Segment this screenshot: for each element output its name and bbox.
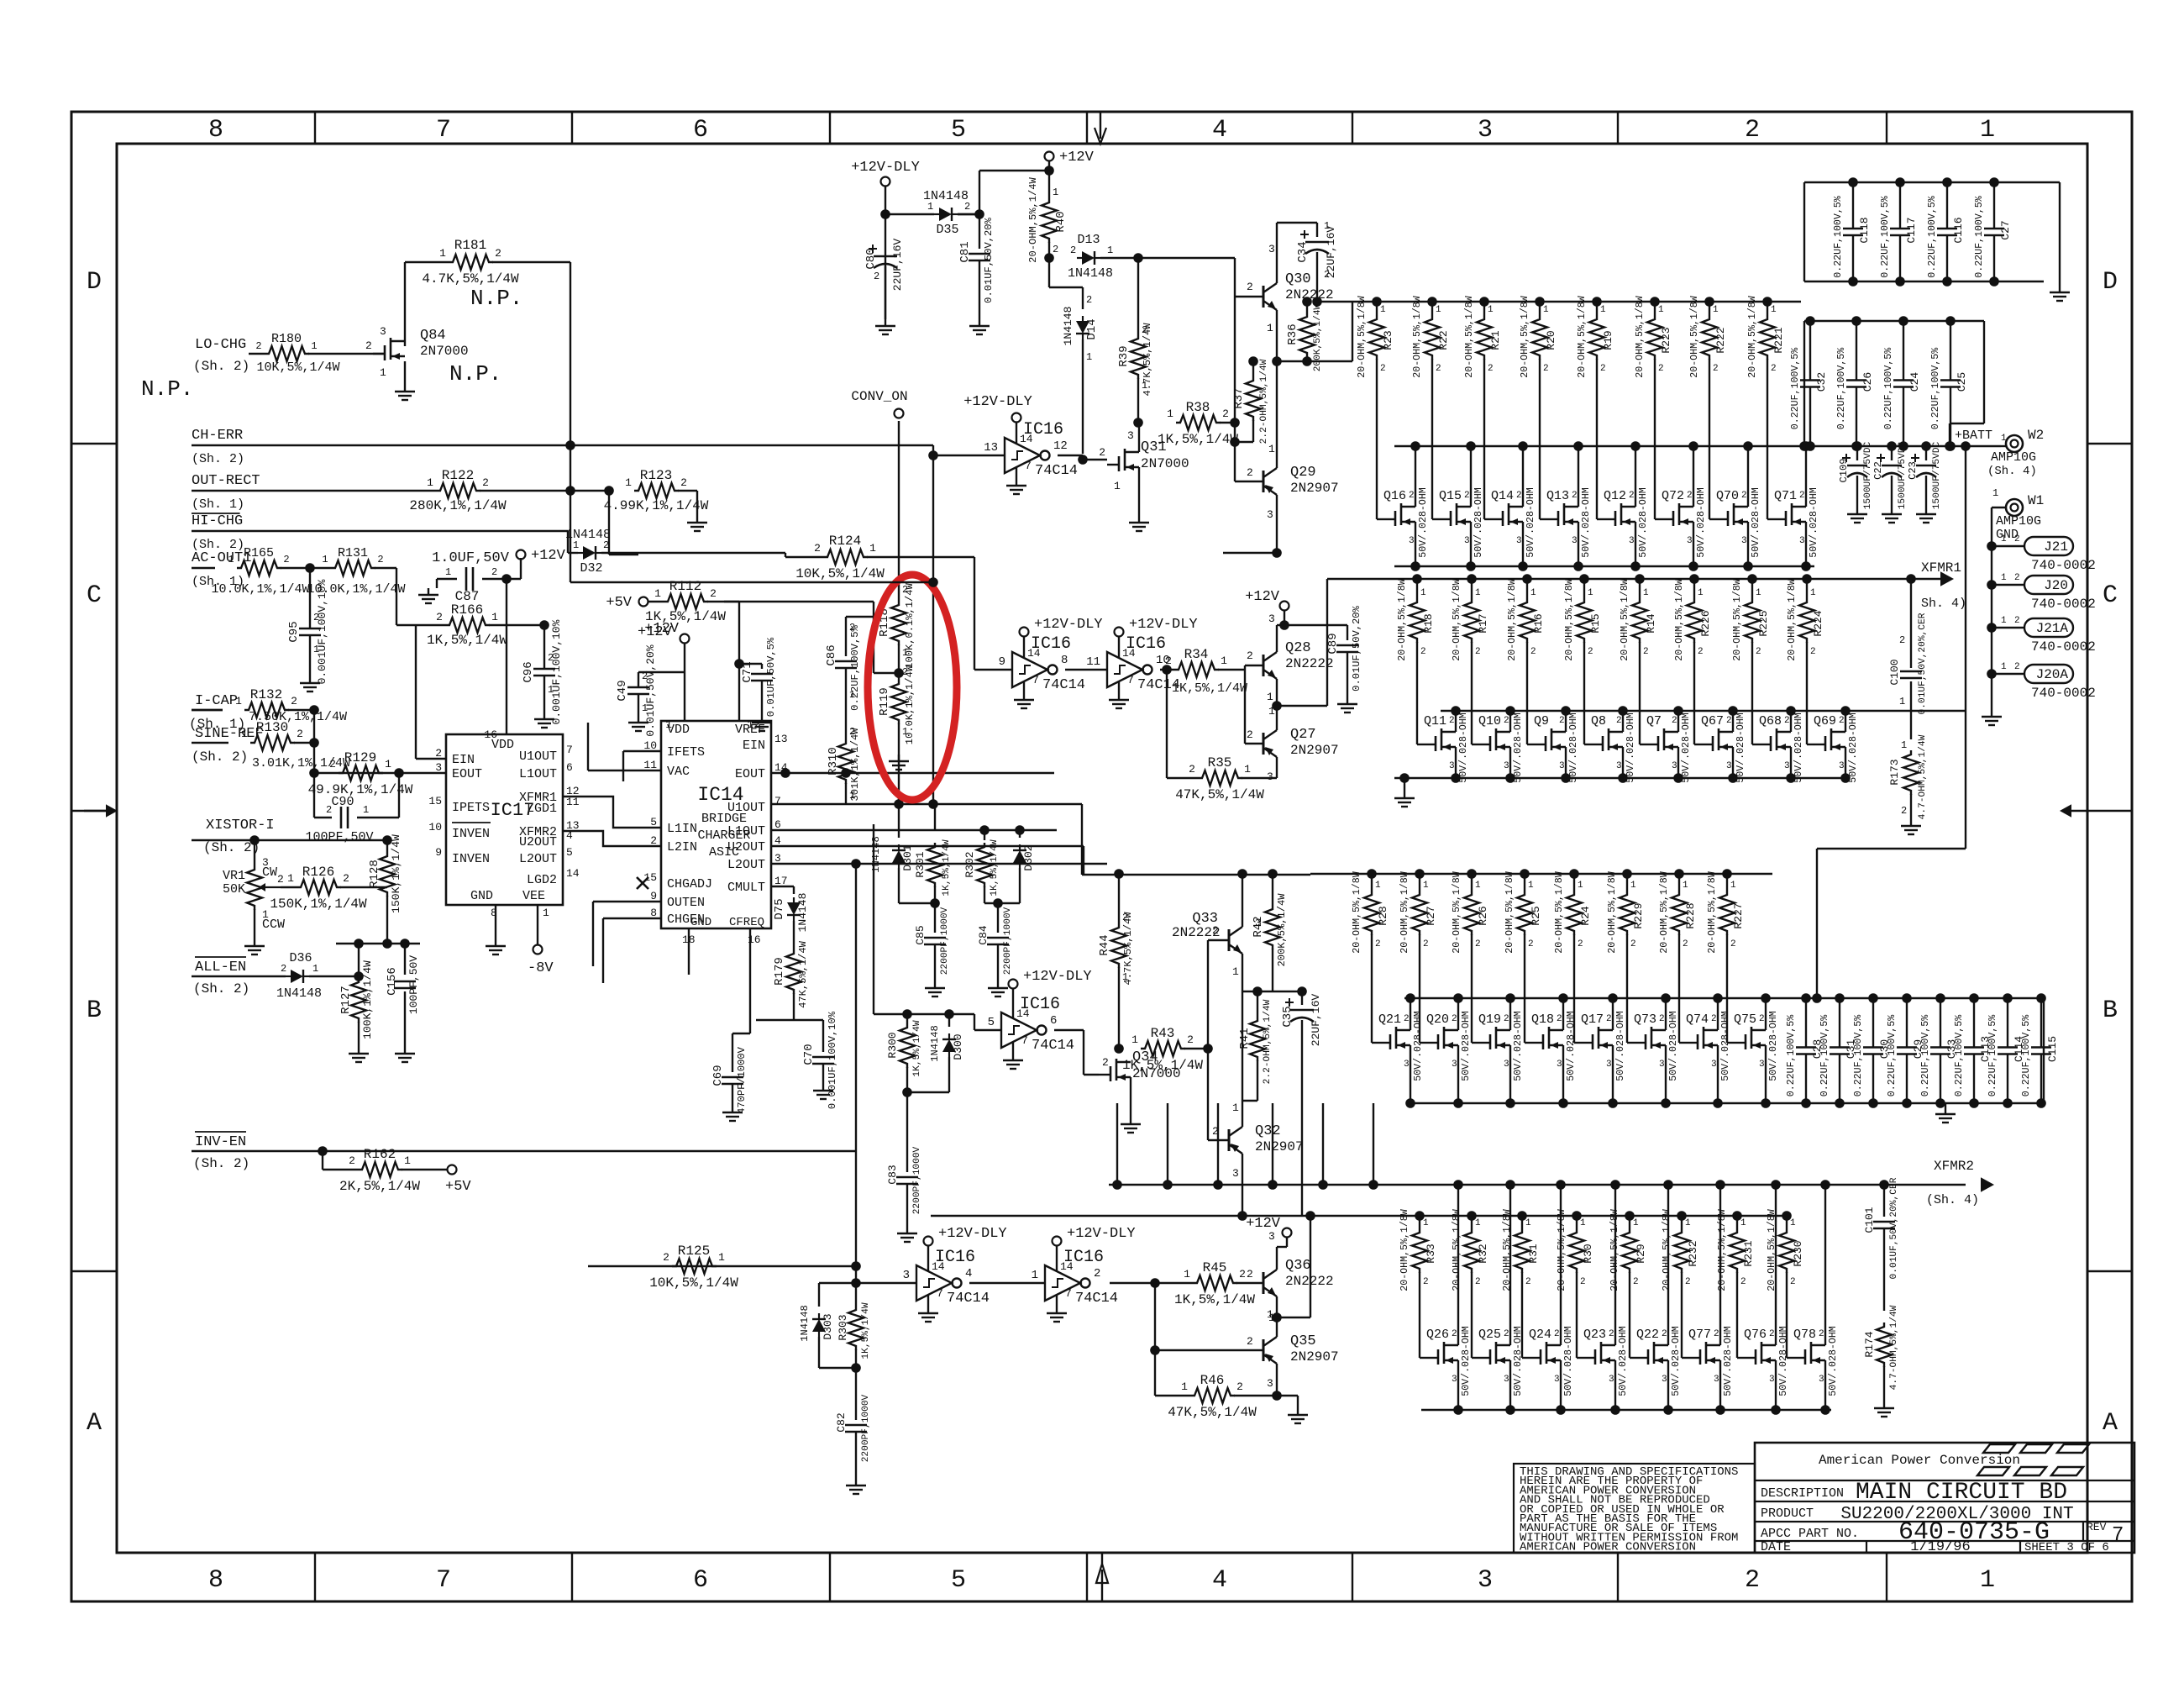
svg-text:1: 1 <box>1267 691 1273 703</box>
svg-text:3: 3 <box>1711 1060 1717 1070</box>
wire XFMR1 row bus <box>0 0 1 1</box>
transistor Q36 2N2222 <box>1247 1230 1334 1321</box>
svg-text:2: 2 <box>1423 939 1429 949</box>
title product row <box>1761 1505 2074 1524</box>
wire inv6 out <box>1054 1030 1099 1075</box>
wire Q35 collector gnd <box>1277 1396 1298 1408</box>
svg-text:7: 7 <box>1021 1034 1028 1047</box>
svg-text:CONV_ON: CONV_ON <box>851 389 907 404</box>
svg-text:R46: R46 <box>1200 1373 1225 1388</box>
svg-text:2: 2 <box>603 539 609 551</box>
svg-text:R21: R21 <box>1489 330 1502 350</box>
gate resistor R225 <box>1732 574 1770 744</box>
svg-text:1: 1 <box>1232 1102 1239 1114</box>
svg-text:3: 3 <box>1714 1375 1719 1385</box>
svg-text:100PF,50V: 100PF,50V <box>305 830 373 844</box>
svg-text:2: 2 <box>1094 1267 1100 1280</box>
svg-text:3: 3 <box>1267 770 1273 783</box>
svg-text:20-OHM,5%,1/8W: 20-OHM,5%,1/8W <box>1787 579 1798 660</box>
svg-text:C: C <box>2103 581 2118 610</box>
svg-text:D: D <box>2103 268 2118 297</box>
svg-text:6: 6 <box>693 116 708 145</box>
svg-text:2: 2 <box>1714 1329 1719 1339</box>
svg-text:7: 7 <box>436 116 451 145</box>
junction R300/D300 <box>902 1087 912 1097</box>
junction R43 right <box>1203 1044 1213 1054</box>
svg-text:C95: C95 <box>287 621 301 642</box>
svg-text:R173: R173 <box>1888 759 1901 785</box>
svg-text:1: 1 <box>1375 881 1381 891</box>
svg-text:2N7000: 2N7000 <box>1141 456 1189 471</box>
svg-text:EOUT: EOUT <box>452 767 482 781</box>
junction R129 right <box>394 768 404 778</box>
svg-text:1K,5%,1/4W: 1K,5%,1/4W <box>942 839 952 896</box>
junction R41 top <box>1242 986 1273 996</box>
svg-text:20-OHM,5%,1/8W: 20-OHM,5%,1/8W <box>1554 871 1565 953</box>
MOSFET Q23 <box>1583 1180 1629 1415</box>
svg-text:C100: C100 <box>1888 659 1901 685</box>
svg-text:2: 2 <box>1559 716 1565 726</box>
svg-text:50V/.028-OHM: 50V/.028-OHM <box>1525 487 1536 558</box>
svg-text:0.01UF,50V,5%: 0.01UF,50V,5% <box>765 637 777 717</box>
svg-text:2: 2 <box>1572 491 1578 501</box>
MOSFET Q67 <box>1701 706 1746 783</box>
svg-text:20-OHM,5%,1/8W: 20-OHM,5%,1/8W <box>1507 579 1518 660</box>
svg-text:J21A: J21A <box>2036 621 2069 636</box>
svg-text:U1OUT: U1OUT <box>727 801 765 815</box>
svg-text:100K,1%,1/4W: 100K,1%,1/4W <box>361 960 374 1039</box>
ground below Q84 <box>395 385 415 400</box>
title company name <box>1819 1453 2020 1468</box>
wire inv2 to R45 node <box>1110 1282 1155 1284</box>
svg-text:C71: C71 <box>741 661 754 682</box>
gate resistor R228 <box>1659 869 1697 1043</box>
diode D302 1N4148 v <box>1013 825 1035 903</box>
svg-text:R39: R39 <box>1117 345 1131 366</box>
ground below C156 <box>395 1047 415 1062</box>
svg-text:11: 11 <box>1086 655 1100 669</box>
junction Q34 drain <box>1114 1044 1124 1054</box>
bus 1207 left link <box>873 824 874 1014</box>
resistor R44 vertical <box>1098 874 1134 1049</box>
ground below IC17 <box>486 939 506 954</box>
svg-text:14: 14 <box>932 1260 945 1273</box>
IC14 pin labels <box>643 718 787 946</box>
capacitor C31 <box>1819 993 1857 1108</box>
svg-text:2: 2 <box>1799 491 1805 501</box>
svg-text:3: 3 <box>1268 243 1275 255</box>
svg-text:+12V-DLY: +12V-DLY <box>1129 617 1198 633</box>
svg-text:150K,1%,1/4W: 150K,1%,1/4W <box>270 897 367 912</box>
MOSFET Q24 <box>1529 1180 1574 1415</box>
diode D36 1N4148 <box>276 951 322 1001</box>
svg-text:C109: C109 <box>1838 458 1850 482</box>
wire IC17-IC14 route 2 <box>563 831 661 846</box>
wire W1 to J bus <box>1992 507 2006 710</box>
svg-text:8: 8 <box>208 1566 223 1595</box>
junction R112/C71 <box>734 659 744 669</box>
svg-text:EOUT: EOUT <box>735 767 765 781</box>
drain bus bank2 <box>1441 710 1966 712</box>
svg-text:6: 6 <box>693 1566 708 1595</box>
svg-text:0.22UF,100V,5%: 0.22UF,100V,5% <box>1833 196 1844 277</box>
svg-text:2: 2 <box>1247 1268 1253 1280</box>
svg-text:(Sh. 2): (Sh. 2) <box>193 1156 249 1171</box>
wire base rail bank4 <box>1154 1283 1156 1396</box>
svg-text:C24: C24 <box>1908 372 1921 392</box>
wire R166 left <box>396 624 445 626</box>
svg-text:B: B <box>87 996 102 1025</box>
junction OUT-RECT a <box>565 486 575 496</box>
svg-text:1N4148: 1N4148 <box>276 986 322 1001</box>
svg-text:6: 6 <box>774 818 781 831</box>
ground below C89 <box>1337 697 1357 713</box>
svg-text:2: 2 <box>1053 244 1058 255</box>
svg-text:2: 2 <box>1488 364 1494 374</box>
svg-text:3: 3 <box>1839 761 1845 771</box>
svg-text:2: 2 <box>1713 364 1719 374</box>
svg-text:2: 2 <box>1658 364 1664 374</box>
svg-text:R31: R31 <box>1527 1244 1540 1264</box>
svg-text:VR1: VR1 <box>223 869 245 883</box>
svg-text:3: 3 <box>1464 536 1470 546</box>
svg-text:2: 2 <box>1687 491 1693 501</box>
wire R181 to CH-ERR junction <box>492 262 570 445</box>
svg-text:10K,5%,1/4W: 10K,5%,1/4W <box>649 1275 738 1291</box>
svg-text:50V/.028-OHM: 50V/.028-OHM <box>1418 487 1429 558</box>
svg-text:VAC: VAC <box>667 765 690 779</box>
junction inv4 input <box>851 1278 861 1288</box>
svg-text:2: 2 <box>297 728 303 740</box>
resistor R179 vertical <box>756 940 809 1020</box>
svg-text:3: 3 <box>1452 1375 1457 1385</box>
svg-text:9: 9 <box>435 846 442 859</box>
svg-text:2: 2 <box>1452 1329 1457 1339</box>
svg-text:2: 2 <box>1745 116 1760 145</box>
svg-text:2: 2 <box>1633 1277 1639 1287</box>
svg-text:Q76: Q76 <box>1744 1328 1767 1342</box>
svg-text:D14: D14 <box>1085 318 1099 339</box>
cap bank A top bus <box>1804 181 2060 183</box>
svg-text:W1: W1 <box>2028 493 2044 508</box>
svg-text:2: 2 <box>1504 1014 1509 1024</box>
svg-text:50V/.028-OHM: 50V/.028-OHM <box>1473 487 1484 558</box>
wire R300 D300 join <box>907 1091 949 1093</box>
svg-text:50V/.028-OHM: 50V/.028-OHM <box>1413 1011 1424 1081</box>
svg-text:2: 2 <box>1580 1277 1586 1287</box>
svg-text:2: 2 <box>1588 647 1593 657</box>
svg-text:10K,5%,1/4W: 10K,5%,1/4W <box>795 566 885 581</box>
svg-text:50V/.028-OHM: 50V/.028-OHM <box>1461 1326 1472 1396</box>
svg-text:2200PF,1000V: 2200PF,1000V <box>861 1394 871 1462</box>
MOSFET Q17 <box>1581 993 1626 1108</box>
svg-text:Q12: Q12 <box>1604 489 1626 503</box>
svg-text:XISTOR-I: XISTOR-I <box>206 818 275 833</box>
svg-text:200K,5%,1/4W: 200K,5%,1/4W <box>1313 303 1323 371</box>
resistor R122 <box>409 468 507 513</box>
svg-text:1: 1 <box>2001 534 2007 544</box>
svg-text:1: 1 <box>1980 116 1995 145</box>
wire inv10 to R34 <box>1160 669 1174 670</box>
wire R125 line <box>588 1261 861 1271</box>
svg-text:D13: D13 <box>1077 233 1100 247</box>
svg-text:2: 2 <box>1740 1277 1746 1287</box>
resistor R124 (cont) <box>795 534 885 581</box>
svg-text:1: 1 <box>642 702 648 714</box>
svg-text:1: 1 <box>1580 1218 1586 1228</box>
svg-text:R162: R162 <box>364 1147 396 1162</box>
svg-text:3: 3 <box>1504 1060 1509 1070</box>
wire Q33 base <box>1208 939 1229 941</box>
svg-text:20-OHM,5%,1/8W: 20-OHM,5%,1/8W <box>1620 579 1630 660</box>
svg-text:1: 1 <box>718 1251 725 1264</box>
signal AC-OUT1 (Sh. 1) <box>192 550 251 589</box>
svg-text:A: A <box>2103 1409 2118 1438</box>
svg-text:1: 1 <box>1683 881 1688 891</box>
svg-text:DESCRIPTION: DESCRIPTION <box>1761 1486 1844 1501</box>
MOSFET Q22 <box>1636 1180 1682 1415</box>
svg-text:1: 1 <box>1131 1033 1138 1046</box>
svg-text:R22: R22 <box>1437 330 1450 350</box>
MOSFET Q77 <box>1688 1180 1734 1415</box>
capacitor C81 <box>958 214 995 319</box>
gate resistor R230 <box>1767 1209 1804 1358</box>
MOSFET Q15 <box>1439 441 1484 571</box>
IC IC17 box <box>446 734 563 905</box>
svg-text:2200PF,1000V: 2200PF,1000V <box>1003 907 1013 975</box>
wire R39 col <box>1137 258 1139 334</box>
svg-text:2: 2 <box>326 804 332 816</box>
svg-text:R20: R20 <box>1545 330 1557 350</box>
svg-text:50V/.028-OHM: 50V/.028-OHM <box>1638 487 1649 558</box>
wire Q34 source gnd <box>1130 1077 1131 1117</box>
capacitor C23 1500UF <box>1907 441 1942 523</box>
svg-text:1: 1 <box>1756 588 1761 598</box>
svg-text:R24: R24 <box>1579 906 1592 926</box>
svg-text:3: 3 <box>1504 761 1509 771</box>
svg-text:Q7: Q7 <box>1646 714 1662 728</box>
wire emitter rail bank1 <box>1276 320 1278 458</box>
wire IC14 VAC stub <box>588 723 661 770</box>
svg-text:2: 2 <box>1643 647 1649 657</box>
svg-text:(Sh. 4): (Sh. 4) <box>1987 465 2037 478</box>
wire HI-CHG jog <box>568 531 578 553</box>
junction INV-EN <box>318 1146 328 1156</box>
svg-text:2: 2 <box>435 747 442 760</box>
svg-text:2: 2 <box>1189 763 1195 776</box>
svg-text:CFREQ: CFREQ <box>729 916 764 929</box>
MOSFET Q11 <box>1424 706 1469 783</box>
svg-text:7: 7 <box>1127 674 1134 686</box>
svg-text:50V/.028-OHM: 50V/.028-OHM <box>1458 713 1469 783</box>
wire VR1 top <box>254 840 255 865</box>
svg-text:D35: D35 <box>936 223 958 237</box>
power +12V-DLY for IC16-12 <box>963 394 1032 432</box>
svg-text:Q69: Q69 <box>1814 714 1836 728</box>
junction U1OUT a <box>928 799 938 809</box>
svg-text:100PF,50V: 100PF,50V <box>407 955 420 1014</box>
svg-text:1N4148: 1N4148 <box>870 836 882 873</box>
wire +BATT to bank3 drop <box>1812 441 1971 1003</box>
wire emitter rail bank3 <box>1242 964 1243 1117</box>
svg-text:740-0002: 740-0002 <box>2031 597 2096 612</box>
svg-text:R303: R303 <box>837 1314 849 1340</box>
svg-text:D300: D300 <box>952 1033 964 1060</box>
svg-text:APCC PART NO.: APCC PART NO. <box>1761 1527 1859 1541</box>
wire Q29 collector down <box>1223 505 1277 553</box>
capacitor C28 <box>1786 993 1824 1108</box>
wire Q31 source to ground <box>1138 467 1140 516</box>
svg-text:0.22UF,100V,5%: 0.22UF,100V,5% <box>1930 348 1941 429</box>
junction emitter rail 2 <box>1272 701 1282 711</box>
svg-text:0.22UF,100V,5%: 0.22UF,100V,5% <box>1954 1015 1965 1096</box>
svg-text:1: 1 <box>902 726 908 738</box>
resistor R162 <box>339 1147 420 1194</box>
capacitor C84 <box>977 903 1013 981</box>
svg-text:R127: R127 <box>339 986 353 1014</box>
junction R34 in <box>1162 665 1172 675</box>
svg-text:2: 2 <box>491 566 497 578</box>
svg-text:1: 1 <box>1530 588 1536 598</box>
power +12V top <box>1045 150 1095 166</box>
svg-text:50V/.028-OHM: 50V/.028-OHM <box>1563 1326 1574 1396</box>
transistor Q30 2N2222 <box>1247 243 1334 334</box>
svg-text:47K,5%,1/4W: 47K,5%,1/4W <box>1175 787 1264 802</box>
svg-text:2: 2 <box>1543 364 1549 374</box>
svg-text:AMERICAN POWER CONVERSION: AMERICAN POWER CONVERSION <box>1520 1541 1696 1554</box>
svg-text:C69: C69 <box>711 1065 725 1086</box>
svg-text:3: 3 <box>1819 1375 1824 1385</box>
capacitor C89 <box>1284 605 1362 697</box>
capacitor C109 1500UF <box>1838 441 1873 523</box>
svg-text:2: 2 <box>1247 281 1253 293</box>
resistor R129 <box>308 750 413 797</box>
capacitor C80 electrolytic <box>864 239 904 319</box>
svg-text:50V/.028-OHM: 50V/.028-OHM <box>1848 713 1859 783</box>
svg-text:1: 1 <box>1588 588 1593 598</box>
wire D303/R303 top <box>819 1283 856 1307</box>
svg-text:C82: C82 <box>835 1412 848 1432</box>
bank3 cap right edge <box>2043 998 2045 1103</box>
svg-text:1: 1 <box>1420 588 1426 598</box>
wire R46 right <box>1234 1374 1277 1396</box>
svg-text:3: 3 <box>1267 1377 1273 1390</box>
resistor R38 <box>1158 400 1238 447</box>
ground below J bus <box>1982 710 2002 725</box>
svg-text:R132: R132 <box>250 687 282 702</box>
label W2 AMP10G <box>1987 450 2037 478</box>
svg-text:5: 5 <box>951 1566 966 1595</box>
svg-text:3: 3 <box>1799 536 1805 546</box>
svg-text:Q21: Q21 <box>1378 1012 1401 1027</box>
svg-text:R16: R16 <box>1532 613 1545 633</box>
svg-text:C81: C81 <box>958 241 972 262</box>
svg-text:14: 14 <box>566 867 580 880</box>
capacitor C156 <box>386 944 420 1047</box>
gate resistor R223 <box>1635 296 1672 519</box>
MOSFET Q18 <box>1531 993 1577 1108</box>
svg-text:20-OHM,5%,1/8W: 20-OHM,5%,1/8W <box>1504 871 1515 953</box>
capacitor C71 <box>739 637 777 717</box>
svg-text:2N7000: 2N7000 <box>420 344 469 359</box>
label CONV_ON <box>851 389 907 418</box>
svg-text:Q77: Q77 <box>1688 1328 1711 1342</box>
svg-text:2: 2 <box>291 695 297 707</box>
svg-text:1: 1 <box>427 476 433 489</box>
junction emitter rail <box>1272 356 1282 366</box>
svg-text:49.9K,1%,1/4W: 49.9K,1%,1/4W <box>308 782 413 797</box>
svg-text:Q11: Q11 <box>1424 714 1446 728</box>
wire +BATT to W2 <box>2001 434 2007 446</box>
svg-text:R15: R15 <box>1589 613 1602 633</box>
MOSFET Q14 <box>1491 441 1536 571</box>
svg-text:14: 14 <box>1016 1007 1030 1020</box>
svg-text:R33: R33 <box>1425 1244 1437 1263</box>
svg-text:2: 2 <box>1745 1566 1760 1595</box>
svg-text:2K,5%,1/4W: 2K,5%,1/4W <box>339 1179 420 1194</box>
capacitor C118 <box>1833 177 1871 287</box>
svg-text:1500UF/75VDC: 1500UF/75VDC <box>1932 441 1942 509</box>
svg-text:C32: C32 <box>1815 372 1828 392</box>
transistor Q28 2N2222 <box>1247 613 1334 703</box>
gate resistor R231 <box>1717 1209 1755 1358</box>
svg-text:740-0002: 740-0002 <box>2031 558 2096 573</box>
MOSFET Q10 <box>1478 706 1524 783</box>
junction I-CAP <box>309 705 319 715</box>
wire Q30 base <box>1235 296 1263 297</box>
junction XISTOR-I VR1 <box>249 835 260 845</box>
ground below Q35 <box>1288 1408 1308 1423</box>
resistor R165 <box>211 546 309 597</box>
resistor R119 vertical <box>878 665 916 804</box>
svg-text:REV: REV <box>2087 1521 2107 1533</box>
svg-text:47K,5%,1/4W: 47K,5%,1/4W <box>1168 1405 1257 1420</box>
IC17 GND pin wire <box>495 905 496 939</box>
svg-text:17: 17 <box>774 875 788 887</box>
capacitor C26 <box>1836 316 1874 451</box>
resistor R174 vertical <box>1863 1305 1899 1401</box>
svg-text:+12V-DLY: +12V-DLY <box>963 394 1032 410</box>
capacitor C29 <box>1887 993 1924 1108</box>
inverter IC16 pin1-2 <box>1032 1248 1118 1322</box>
svg-text:14: 14 <box>1122 647 1136 660</box>
svg-text:C101: C101 <box>1863 1207 1876 1233</box>
signal XISTOR-I (Sh. 2) <box>192 818 387 855</box>
cap bank B top bus <box>1804 320 1984 322</box>
junction R166/C96 <box>539 620 549 630</box>
svg-text:1: 1 <box>1221 655 1227 667</box>
svg-text:2: 2 <box>1222 408 1229 420</box>
diode D300 1N4148 v <box>929 1014 964 1092</box>
svg-text:Q14: Q14 <box>1491 489 1514 503</box>
svg-text:22UF,16V: 22UF,16V <box>1310 994 1322 1047</box>
svg-text:R227: R227 <box>1732 902 1745 928</box>
svg-text:1K,5%,1/4W: 1K,5%,1/4W <box>1122 1058 1203 1073</box>
power +12V-DLY for IC16-8 <box>1020 617 1103 646</box>
power +12V above IC14 VDD <box>638 621 690 644</box>
svg-text:2: 2 <box>548 652 554 664</box>
svg-text:4: 4 <box>774 834 781 847</box>
ground below C95 <box>300 676 320 692</box>
wires bank3 to XFMR2 bus <box>1112 1103 1378 1190</box>
svg-text:20-OHM,5%,1/8W: 20-OHM,5%,1/8W <box>1464 296 1475 377</box>
copyright text <box>1520 1465 1738 1554</box>
svg-text:16: 16 <box>484 728 497 741</box>
svg-text:4: 4 <box>1212 116 1227 145</box>
svg-text:0.01UF,50V,20%: 0.01UF,50V,20% <box>983 217 995 302</box>
wire R38 to base rail <box>1220 422 1235 423</box>
svg-text:1: 1 <box>1181 1380 1188 1393</box>
